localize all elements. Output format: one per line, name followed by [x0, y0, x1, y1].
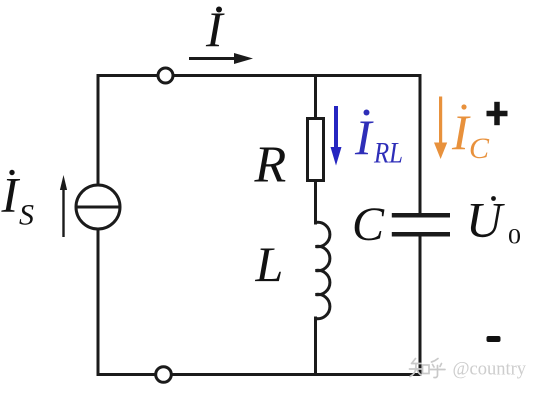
svg-text:C: C: [352, 198, 385, 251]
svg-text:C: C: [469, 132, 490, 165]
svg-text:0: 0: [508, 224, 521, 249]
svg-text:RL: RL: [373, 137, 403, 170]
svg-text:@country: @country: [453, 360, 527, 380]
svg-text:I: I: [205, 1, 225, 57]
svg-text:I: I: [1, 167, 21, 223]
svg-text:U: U: [466, 192, 505, 248]
svg-text:S: S: [19, 199, 34, 232]
svg-text:L: L: [255, 236, 284, 292]
svg-text:I: I: [354, 109, 374, 165]
svg-text:I: I: [451, 104, 471, 160]
svg-text:R: R: [254, 137, 287, 194]
